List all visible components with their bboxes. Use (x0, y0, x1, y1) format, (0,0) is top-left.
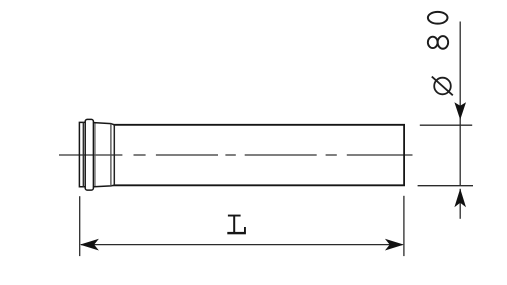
diameter leader line upper (459, 22, 461, 125)
L dimension arrowhead right (385, 239, 404, 251)
label 80 rotated: digit 8 bottom bowl (438, 36, 449, 49)
socket body bottom edge (94, 185, 114, 186)
diameter dimension line between extensions (459, 125, 461, 186)
socket mouth outer edge (79, 122, 84, 186)
diameter arrowhead down (454, 102, 466, 120)
label 80 rotated: digit 0 (428, 12, 448, 24)
socket bead ring (85, 119, 93, 190)
L dimension extension line left (79, 196, 81, 256)
diameter leader line lower (459, 189, 461, 219)
diameter symbol slash (432, 77, 453, 96)
diameter arrowhead up (454, 189, 466, 208)
label 80 rotated: digit 8 top bowl (428, 37, 438, 48)
diameter extension line top (420, 124, 472, 126)
socket end line 1 (110, 124, 112, 186)
L dimension extension line right (403, 196, 405, 256)
label L (227, 215, 246, 235)
diameter symbol circle (434, 78, 451, 95)
socket body top edge (94, 123, 114, 125)
socket end line 2 (113, 125, 115, 186)
socket mouth inner line (82, 122, 84, 186)
socket bead fillet line (94, 123, 96, 187)
diameter extension line bottom (418, 185, 473, 187)
L dimension arrowhead left (80, 239, 99, 251)
pipe body outline (114, 125, 404, 186)
L dimension line (81, 244, 403, 246)
centerline (59, 154, 413, 156)
